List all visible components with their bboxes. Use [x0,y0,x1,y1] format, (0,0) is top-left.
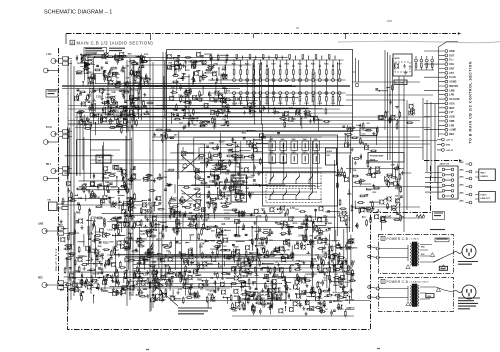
svg-text:AGB: AGB [449,116,455,119]
svg-text:C9: C9 [210,278,214,280]
svg-text:PB L: PB L [46,164,52,166]
svg-text:47u: 47u [317,281,322,284]
svg-text:4.7K: 4.7K [287,288,292,291]
svg-text:R45: R45 [128,53,133,56]
relay contacts [395,63,414,74]
svg-text:R12: R12 [241,305,246,308]
AC protector box power 1 [435,238,449,242]
svg-text:C31: C31 [199,158,204,160]
svg-text:RELAY: RELAY [247,293,254,296]
svg-text:R203: R203 [103,291,109,293]
svg-text:R88: R88 [151,205,156,208]
svg-text:16V: 16V [221,278,225,280]
svg-text:47K: 47K [279,208,284,211]
board boundary (dash-dot): top, left, bottom, right [59,34,459,330]
svg-text:A: A [71,41,74,45]
svg-text:SW4: SW4 [303,138,307,141]
svg-text:QR05: QR05 [316,236,322,238]
svg-text:R45: R45 [208,94,213,97]
svg-text:100: 100 [395,196,399,198]
svg-text:R12: R12 [351,262,356,264]
power cord 2 [453,291,463,293]
svg-text:0.047: 0.047 [105,97,111,100]
svg-text:R156: R156 [350,307,356,309]
svg-text:C118: C118 [96,95,102,98]
dashed switch box S1 row [266,173,321,187]
svg-text:LMB: LMB [449,89,454,92]
svg-text:C23: C23 [173,198,178,200]
svg-text:R107: R107 [111,187,117,189]
svg-text:R215: R215 [324,64,328,66]
input stage enclosure box L [88,56,140,86]
headphone amp transistor Q52 [392,205,397,212]
svg-text:R156: R156 [275,222,281,225]
svg-text:R231: R231 [185,70,191,72]
svg-text:R88: R88 [132,199,137,201]
svg-text:R156: R156 [338,281,344,283]
svg-text:33K: 33K [196,265,201,267]
svg-text:47u: 47u [207,161,212,164]
svg-text:220: 220 [304,118,308,120]
svg-text:L CH: L CH [46,54,52,56]
svg-text:R205: R205 [258,64,262,66]
note box REC MODE at right of switch grid [326,148,337,165]
svg-text:R156: R156 [318,298,324,300]
fuse box power 1 [439,266,447,270]
svg-text:C202: C202 [238,103,242,105]
svg-text:+REC: +REC [459,176,465,178]
svg-text:47u: 47u [135,72,139,75]
svg-text:+REC: +REC [459,184,465,186]
svg-text:DIN: DIN [48,200,52,202]
svg-text:( 1 ONLY): ( 1 ONLY) [410,239,420,241]
mic amp circuitry lower-left [88,181,142,248]
svg-text:2.2K: 2.2K [290,217,295,219]
record output jack with connector pins [38,278,68,290]
right vertical bus wires to control connector [385,50,435,232]
svg-text:1K: 1K [265,288,268,290]
power supply regulator circuitry bottom-right [229,236,359,317]
svg-text:R45: R45 [246,187,249,190]
svg-text:R211: R211 [298,64,302,66]
svg-text:QR05: QR05 [274,251,280,253]
svg-text:C118: C118 [224,217,230,220]
svg-text:OUT: OUT [449,54,455,57]
voltage note below plug 1 [458,262,478,265]
border tick stubs [66,34,346,45]
svg-text:10K: 10K [346,308,351,310]
svg-text:C9: C9 [200,289,204,291]
svg-text:C74: C74 [287,233,292,236]
tape playback input parts row [93,165,141,188]
svg-text:R207: R207 [271,64,275,66]
power amp driver circuitry bottom-center [138,238,234,311]
line input jack with connector pins [38,224,68,236]
svg-text:2.2K: 2.2K [199,239,204,241]
svg-text:AGA: AGA [449,102,455,105]
function switch block outline [263,135,338,206]
svg-text:R107: R107 [208,295,214,297]
svg-text:PLUG NO.: PLUG NO. [362,130,371,132]
svg-text:1/4W: 1/4W [189,233,194,236]
svg-text:33K: 33K [199,101,203,103]
rec level trimmer parts [375,84,393,92]
T1 input pins [368,245,380,259]
input buffer stage L-CH: transistors, resistors, capacitors [76,52,152,90]
svg-text:SEL: SEL [327,155,331,157]
svg-text:JACK C.B: JACK C.B [440,163,450,166]
power cord 1 [453,252,463,254]
svg-text:R213: R213 [311,64,315,66]
svg-text:+LVL M: +LVL M [446,150,453,152]
svg-text:220: 220 [129,292,132,294]
svg-text:PLAY /: PLAY / [481,194,488,197]
svg-text:R19: R19 [362,208,365,210]
svg-text:+REC: +REC [459,192,465,194]
svg-text:GND: GND [446,145,451,147]
service note text block [178,308,212,314]
svg-text:SCHEMATIC DIAGRAM – 1: SCHEMATIC DIAGRAM – 1 [44,9,112,15]
svg-text:R107: R107 [211,241,216,243]
svg-text:47K: 47K [299,280,303,283]
svg-text:R156: R156 [108,121,114,123]
bank output coupling caps [232,99,264,115]
op-amp A1 input stage [80,61,95,68]
svg-text:R231: R231 [345,282,351,284]
warning triangles power 1 [406,253,446,269]
svg-text:1K: 1K [181,196,184,199]
svg-text:POWER C.B: POWER C.B [387,237,409,241]
svg-text:C56: C56 [214,63,219,66]
svg-text:LPB: LPB [449,94,454,97]
PLAY / LINE OUT terminal box [475,192,495,203]
connector P1 on left margin [46,90,58,98]
svg-text:220: 220 [93,75,97,77]
main amplifier block outline [167,50,353,132]
svg-text:RELAY C.B 1/2: RELAY C.B 1/2 [54,248,58,271]
svg-text:2.2K: 2.2K [200,244,205,246]
fuse box power 2 [426,294,434,298]
record/play switch row S1-1..S1-4 [268,174,322,185]
svg-text:LPB: LPB [449,124,454,127]
svg-text:POWER C.B: POWER C.B [387,280,409,284]
inter-stage feed wires right of amp block [353,58,359,87]
resistor R99 zigzag [416,215,425,218]
svg-text:47u: 47u [299,304,304,307]
svg-text:33K: 33K [126,77,130,79]
signal wires lower band [68,212,351,295]
section label: [A] MAIN C.B 1/2 (AUDIO SECTION) [70,40,153,45]
svg-text:R231: R231 [293,223,299,225]
svg-text:C118: C118 [127,184,133,186]
svg-text:CNT: CNT [247,298,252,300]
svg-text:33K: 33K [286,249,290,251]
svg-text:R107: R107 [248,192,254,195]
phono input jack partner plug R [43,140,58,145]
svg-text:LINE: LINE [38,224,44,226]
svg-text:QR05: QR05 [209,291,216,293]
svg-text:FLAG: FLAG [449,76,456,79]
svg-text:R12: R12 [128,122,133,124]
input buffer stage R-CH: transistors, resistors, capacitors [75,87,154,125]
svg-text:C74: C74 [409,66,413,69]
svg-text:MAIN C.B 1/2 (AUDIO SECTION): MAIN C.B 1/2 (AUDIO SECTION) [77,40,154,45]
svg-text:R88: R88 [281,247,286,249]
record/play switch row S2-1..S2-4 [268,190,322,201]
svg-text:I/O GATE: I/O GATE [449,98,460,101]
tone control components inside block [179,151,208,229]
svg-text:C214: C214 [318,102,322,105]
svg-text:+REC: +REC [459,169,465,171]
svg-text:R45: R45 [106,93,111,96]
svg-text:GNT: GNT [449,68,455,71]
svg-text:QR05: QR05 [233,247,239,249]
svg-text:220: 220 [211,231,215,233]
svg-text:RELAY: RELAY [261,293,268,296]
svg-text:4.7K: 4.7K [124,90,129,93]
svg-text:R88: R88 [76,211,81,214]
svg-text:R12: R12 [72,278,77,280]
svg-text:47K: 47K [384,198,389,201]
svg-text:C56: C56 [222,67,227,69]
PHONES AMP label box [368,153,404,163]
svg-text:0.047: 0.047 [283,240,289,243]
input trim parts row above EQ bank [236,55,336,61]
T1 primary wires [379,245,453,263]
svg-text:0.047: 0.047 [188,294,193,297]
REC LEVEL label box [394,80,407,85]
svg-text:16V: 16V [366,123,370,125]
svg-text:0.047: 0.047 [224,206,230,209]
svg-text:C31: C31 [225,174,230,176]
svg-text:RED: RED [421,247,425,249]
dashed relay box inside mute block [395,62,410,72]
svg-text:SOL: SOL [449,63,454,66]
AC outlet note box [433,212,445,220]
bias oscillator transistors Q31 Q32 [378,100,415,130]
volume/balance circuitry around IC U1 [204,140,268,207]
svg-text:C31: C31 [129,295,134,297]
power board section 1 outline (D POWER C.B) [379,235,454,274]
control connector CN1 pins to MAIN CB 2/2 [424,50,460,136]
svg-text:MKT: MKT [449,107,455,110]
IC U1 volume control [231,175,247,202]
svg-text:+LVL H: +LVL H [446,140,453,142]
note box PLUG schedule [360,128,377,136]
bold signal bus wire y=86 [62,85,350,87]
svg-text:0.047: 0.047 [344,215,350,218]
svg-text:C118: C118 [164,266,170,268]
signal wires upper band [87,57,337,127]
svg-text:VDB: VDB [449,120,454,123]
svg-text:C31: C31 [218,153,223,155]
svg-text:R88: R88 [328,223,333,225]
svg-text:R12: R12 [347,145,352,147]
svg-text:R156: R156 [162,177,168,179]
svg-text:LVT: LVT [449,111,454,114]
svg-text:R88: R88 [227,196,232,198]
svg-text:1K: 1K [112,247,115,250]
svg-text:47K: 47K [86,54,91,57]
AC plug 2 [462,285,476,299]
jack board connector block JACK C.B [425,163,458,200]
svg-text:+REC: +REC [459,162,465,164]
differential amplifier pair Q5 Q6 inside tone block [181,147,200,228]
svg-text:4.7K: 4.7K [149,231,154,234]
svg-text:1K: 1K [151,291,154,293]
EQ filter bank rows: varistor taps on L/R buses with resistor ladders [208,60,346,107]
svg-text:1/4W: 1/4W [88,82,94,85]
svg-text:QR05: QR05 [137,244,143,246]
svg-text:6.8K: 6.8K [391,164,396,166]
svg-text:16V: 16V [129,72,134,75]
bank output mixer parts [272,107,330,132]
svg-text:1K: 1K [113,75,116,77]
page number marks [146,349,380,350]
headphone amp transistor Q51 [385,176,390,183]
record mute block outline [393,54,412,76]
svg-text:220: 220 [193,125,196,127]
svg-text:MUTE: MUTE [395,58,401,60]
svg-text:C118: C118 [232,266,238,268]
svg-text:R231: R231 [265,286,271,288]
svg-text:C23: C23 [194,62,199,64]
svg-text:R107: R107 [209,181,215,183]
svg-text:2.2K: 2.2K [320,256,325,258]
svg-text:16V: 16V [290,265,295,267]
svg-text:16V: 16V [334,274,338,276]
svg-text:R107: R107 [356,125,362,127]
svg-text:GND: GND [449,50,455,53]
svg-text:CNT: CNT [261,298,266,300]
svg-text:REC: REC [38,278,43,280]
playback equalizer amp stage 2 [170,84,232,129]
svg-text:6.8K: 6.8K [170,136,175,139]
svg-text:33K: 33K [199,246,204,248]
bias resistor pairs near connector [414,56,434,70]
REC / LINE IN terminal box [475,169,495,181]
svg-text:33K: 33K [353,170,357,172]
svg-text:C23: C23 [143,274,148,277]
svg-text:16V: 16V [83,184,88,186]
voltage area note text below plug 2 [458,298,480,309]
svg-text:RELAY: RELAY [275,293,282,296]
svg-text:R12: R12 [373,192,378,194]
svg-text:C118: C118 [225,90,231,92]
svg-text:10K: 10K [174,110,178,112]
svg-text:R156: R156 [98,273,104,275]
svg-text:33K: 33K [178,95,183,97]
svg-text:REC LEVEL: REC LEVEL [395,83,404,85]
svg-text:PHONES AMP: PHONES AMP [370,155,384,158]
board edge outline at control connector [439,42,458,138]
jack wiring parts column [59,181,93,247]
svg-text:C208: C208 [278,103,282,105]
tape playback jack partner plug [43,176,58,181]
svg-text:33K: 33K [168,63,172,65]
svg-text:D: D [382,237,384,241]
svg-text:C23: C23 [126,65,131,67]
svg-text:1K: 1K [325,309,328,311]
svg-text:SW2: SW2 [281,139,285,141]
svg-text:C212: C212 [304,103,308,105]
svg-text:R12: R12 [144,54,149,56]
svg-text:220: 220 [110,70,114,72]
switch logic drive circuitry [231,206,340,244]
phono input jack partner plug L [43,68,58,73]
power transformer T1 [410,242,419,266]
svg-text:0.047: 0.047 [109,262,115,265]
tone control block outline [178,144,205,228]
svg-text:C118: C118 [91,218,97,220]
svg-text:R107: R107 [219,140,225,143]
svg-text:2,3,5: 2,3,5 [362,134,366,136]
svg-text:4.7K: 4.7K [178,288,183,291]
svg-text:MOUNT: MOUNT [449,85,458,88]
note box PB EQ select [96,155,111,163]
svg-text:C9: C9 [190,249,194,251]
AC plug 1 [462,245,476,259]
svg-text:33K: 33K [198,95,203,97]
svg-text:R203: R203 [233,308,239,310]
svg-text:R107: R107 [258,243,264,246]
tone defeat switch parts [142,169,175,193]
paper fold artifact line [338,41,500,42]
DIN connector box on left margin [48,200,69,211]
svg-text:1/4W: 1/4W [232,310,237,313]
svg-text:R156: R156 [125,81,131,84]
coupling network [153,129,178,143]
svg-text:1/4W: 1/4W [387,119,393,122]
detail pointer line [155,286,178,306]
svg-text:10K: 10K [221,224,226,226]
svg-text:LINE IN: LINE IN [481,176,489,178]
power transformer T2 [410,284,419,307]
svg-text:R88: R88 [165,273,170,276]
headphone wires [335,155,432,240]
svg-text:1K: 1K [85,283,88,285]
svg-text:C74: C74 [395,187,400,190]
svg-text:R88: R88 [197,278,202,281]
svg-text:R203: R203 [78,73,84,75]
svg-text:MUTE: MUTE [370,160,376,162]
svg-text:R19: R19 [201,172,206,174]
svg-text:16V: 16V [174,135,178,137]
input stage enclosure box R [92,90,138,114]
selector label row [231,130,280,144]
svg-text:47u: 47u [323,215,328,218]
svg-text:C216: C216 [331,103,335,105]
horizontal interconnect wires [68,106,437,317]
svg-text:C118: C118 [176,243,182,245]
svg-text:R45: R45 [127,242,132,245]
svg-text:47u: 47u [67,245,71,248]
svg-text:4.7K: 4.7K [140,233,145,236]
svg-text:6.8K: 6.8K [363,144,368,146]
svg-text:2.2K: 2.2K [241,261,246,263]
svg-text:C5T: C5T [449,72,454,75]
svg-text:220: 220 [124,250,128,252]
svg-text:R45: R45 [350,298,355,301]
svg-text:C210: C210 [291,103,295,105]
svg-text:R88: R88 [110,105,115,107]
svg-text:100: 100 [197,274,202,277]
svg-text:10K: 10K [239,168,243,170]
tape playback jack L with connector pins [46,164,72,175]
main amplifier block inner shelf edge [167,112,353,114]
svg-text:6.8K: 6.8K [261,304,266,307]
svg-text:C23: C23 [295,289,300,291]
